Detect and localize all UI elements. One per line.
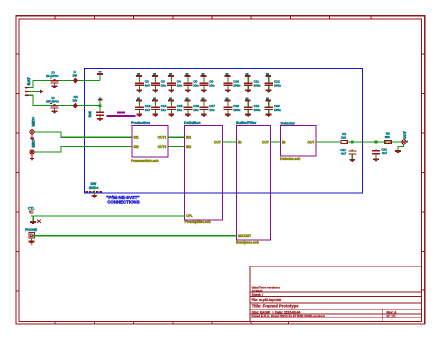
- frame tick right 4: [421, 172, 425, 173]
- svg-text:BPU/PIC: BPU/PIC: [46, 100, 59, 104]
- frame tick bottom 6: [251, 321, 252, 325]
- svg-text:IN2: IN2: [134, 145, 139, 149]
- title block rev divider: [382, 309, 384, 321]
- wire Definition OUT to Buffer IN: [223, 142, 237, 143]
- wire Buffer OUT to Detector IN: [271, 142, 281, 143]
- teal mark right of J7: [407, 140, 409, 142]
- frame tick left 5: [16, 212, 20, 213]
- dashes under GND label: [86, 191, 88, 192]
- frame tick right 5: [421, 212, 425, 213]
- frame tick right 1: [421, 54, 425, 55]
- analog section note rectangle: [85, 68, 363, 193]
- frame tick top 6: [251, 16, 252, 20]
- svg-text:10n: 10n: [161, 83, 166, 87]
- svg-text:OUT1: OUT1: [158, 136, 167, 140]
- frame tick top 7: [290, 16, 291, 20]
- connector J1 pin 2: [25, 91, 29, 92]
- svg-text:BAT: BAT: [26, 77, 31, 85]
- svg-text:2u2: 2u2: [88, 111, 92, 117]
- frame tick left 3: [16, 133, 20, 134]
- svg-text:10n: 10n: [209, 83, 214, 87]
- svg-text:IN1: IN1: [134, 136, 139, 140]
- frame tick left 2: [16, 93, 20, 94]
- ferrite bead FB1: [106, 115, 135, 117]
- svg-text:10n: 10n: [177, 108, 182, 112]
- ground mark below J4: [30, 154, 34, 160]
- title block line 5: [250, 313, 422, 315]
- svg-text:CONNECTIONS: CONNECTIONS: [107, 199, 140, 204]
- frame tick right 7: [421, 290, 425, 291]
- frame tick bottom 3: [133, 321, 134, 325]
- svg-text:Buffer/Filter: Buffer/Filter: [236, 121, 257, 125]
- svg-text:IN: IN: [238, 140, 242, 144]
- frame tick right 2: [421, 93, 425, 94]
- wire R1 to output: [347, 142, 403, 143]
- svg-text:Detector: Detector: [281, 121, 296, 125]
- svg-text:4u7: 4u7: [145, 108, 151, 112]
- title block line 6: [250, 316, 422, 318]
- capacitor C17: [200, 98, 209, 118]
- resistor R1: [341, 140, 347, 143]
- svg-text:100n: 100n: [274, 108, 281, 112]
- svg-text:MIC-: MIC-: [30, 138, 35, 147]
- power bar above C1: [98, 99, 102, 101]
- frame tick left 6: [16, 251, 20, 252]
- svg-text:68k: 68k: [385, 135, 390, 139]
- svg-text:Title: Framed Prototype: Title: Framed Prototype: [252, 303, 300, 308]
- resistor R2: [385, 141, 392, 144]
- frame tick left 1: [16, 54, 20, 55]
- svg-text:Preamplifier.sch: Preamplifier.sch: [185, 220, 211, 224]
- capacitor C21: [348, 150, 356, 163]
- ground below CPL wire: [30, 221, 36, 224]
- svg-text:IN2: IN2: [186, 145, 191, 149]
- frame tick top 9: [370, 16, 371, 20]
- stub to ground from jack: [31, 238, 32, 241]
- svg-text:PHONE: PHONE: [25, 228, 38, 232]
- capacitor C15: [167, 98, 176, 118]
- junction at C21: [351, 141, 354, 144]
- ground below J7: [395, 150, 401, 153]
- capacitor C19: [244, 98, 253, 118]
- capacitor C3: [151, 73, 160, 92]
- junction at C22: [375, 141, 378, 144]
- svg-text:Definition: Definition: [184, 121, 201, 125]
- ground below note box: [94, 191, 95, 195]
- capacitor C10: [224, 73, 233, 92]
- capacitor C14: [151, 98, 160, 118]
- frame tick top 3: [133, 16, 134, 20]
- frame tick bottom 2: [94, 321, 95, 325]
- svg-text:1k0: 1k0: [341, 135, 346, 139]
- svg-text:4u7: 4u7: [145, 83, 151, 87]
- connector J6 jack symbol: [29, 233, 34, 238]
- frame tick bottom 1: [55, 321, 56, 325]
- frame tick top 4: [172, 16, 173, 20]
- frame tick right 6: [421, 251, 425, 252]
- frame tick left 4: [16, 172, 20, 173]
- sheet Detector box: [281, 126, 317, 157]
- ground below jack: [29, 241, 35, 244]
- wire Detector OUT to R1: [316, 142, 341, 143]
- svg-text:100n: 100n: [254, 83, 261, 87]
- wire bottom rail: [33, 105, 101, 106]
- capacitor C5: [184, 73, 193, 92]
- capacitor C13: [135, 98, 144, 118]
- svg-text:10n: 10n: [177, 83, 182, 87]
- power diamond PWR1: [73, 78, 78, 84]
- wire PHONE long: [32, 235, 237, 236]
- power bar top left inside box: [97, 71, 103, 75]
- capacitor C22: [372, 149, 380, 162]
- svg-text:IN: IN: [282, 140, 286, 144]
- svg-text:BLE/PIC: BLE/PIC: [46, 74, 59, 78]
- svg-text:Detector.sch: Detector.sch: [280, 157, 300, 161]
- svg-text:4n7: 4n7: [341, 152, 347, 156]
- svg-text:10n: 10n: [193, 83, 198, 87]
- svg-text:100n: 100n: [254, 108, 261, 112]
- svg-text:GND■: GND■: [89, 186, 99, 190]
- capacitor C2: [135, 73, 144, 92]
- capacitor C12: [264, 73, 273, 92]
- wire CPL long: [31, 215, 185, 216]
- svg-text:BB: BB: [73, 99, 78, 103]
- sheet Buffer/Filter box: [237, 126, 271, 240]
- capacitor C7 on top rail: [50, 78, 59, 89]
- svg-text:OUT2: OUT2: [158, 145, 167, 149]
- sheet Production box: [132, 126, 168, 157]
- svg-text:Bandpass.sch: Bandpass.sch: [236, 240, 259, 244]
- wire J7 to ground: [403, 144, 404, 147]
- svg-text:10n: 10n: [209, 108, 214, 112]
- wire J4 to sheet: [34, 152, 62, 153]
- svg-text:Powerswitch.sch: Powerswitch.sch: [131, 159, 159, 163]
- svg-text:Production: Production: [131, 121, 150, 125]
- title block line 1: [250, 291, 422, 293]
- svg-text:OUT: OUT: [262, 140, 269, 144]
- title block outline: [250, 266, 422, 321]
- wire J3 to sheet: [34, 131, 62, 132]
- connector J3 pin: [30, 130, 34, 134]
- svg-text:BB: BB: [73, 74, 78, 78]
- wire OUT2 to IN2: [168, 146, 185, 147]
- svg-text:CTL: CTL: [28, 207, 35, 211]
- capacitor C1: [96, 107, 104, 121]
- svg-text:10n: 10n: [193, 108, 198, 112]
- frame tick left 7: [16, 291, 20, 292]
- svg-text:OUT: OUT: [214, 140, 221, 144]
- svg-text:IN1: IN1: [186, 136, 191, 140]
- svg-text:OUT: OUT: [307, 140, 314, 144]
- connector J1 pin 3: [25, 95, 29, 96]
- frame tick bottom 7: [288, 321, 289, 325]
- frame tick top 1: [55, 16, 56, 20]
- output connector J7 pin: [402, 140, 406, 144]
- no connect arrow: [40, 89, 43, 93]
- svg-text:MIC+: MIC+: [30, 116, 35, 126]
- connector J1 pin 1: [25, 87, 29, 88]
- svg-text:OUT: OUT: [403, 131, 407, 140]
- svg-text:File: m-pID-lapr.lmk: File: m-pID-lapr.lmk: [252, 298, 282, 302]
- wire top rail: [33, 80, 101, 81]
- connector J4 pin: [30, 150, 34, 154]
- capacitor C18: [224, 98, 233, 118]
- svg-text:CPL: CPL: [186, 214, 193, 218]
- sheet Definition box: [185, 126, 223, 220]
- svg-text:MAX267: MAX267: [238, 234, 251, 238]
- svg-text:100n: 100n: [274, 83, 281, 87]
- frame tick top 8: [329, 16, 330, 20]
- svg-text:Kicad E.D.A. kicad (2014-11-0: Kicad E.D.A. kicad (2014-11-07 BZR 5240)…: [252, 314, 325, 318]
- svg-text:100n: 100n: [233, 108, 240, 112]
- capacitor C8 on bottom rail: [50, 103, 59, 114]
- connector J5 pin: [29, 211, 33, 212]
- wire OUT1 to IN1: [168, 137, 185, 138]
- svg-text:4n7: 4n7: [382, 151, 388, 155]
- capacitor C4: [167, 73, 176, 92]
- ground mark below J3: [30, 134, 34, 140]
- wire pin3 down: [29, 95, 33, 96]
- capacitor C20: [264, 98, 273, 118]
- title block line 2: [250, 296, 422, 298]
- svg-text:ACPER: ACPER: [252, 289, 264, 293]
- frame tick top 2: [94, 16, 95, 20]
- frame tick bottom 4: [172, 321, 173, 325]
- capacitor C16: [184, 98, 193, 118]
- stub to ground from CPL wire: [33, 215, 34, 221]
- svg-text:Sheet: /: Sheet: /: [252, 293, 264, 297]
- title block line 4: [250, 308, 422, 310]
- wire to C1 junction: [99, 105, 102, 108]
- capacitor C6: [200, 73, 209, 92]
- svg-text:100n: 100n: [233, 83, 240, 87]
- svg-text:Id: 1/1: Id: 1/1: [387, 314, 396, 318]
- frame tick bottom 5: [212, 321, 213, 325]
- svg-text:10n: 10n: [161, 108, 166, 112]
- capacitor C11: [244, 73, 253, 92]
- power diamond PWR2: [73, 103, 78, 109]
- no connect X: [37, 220, 41, 223]
- wire pin1 up: [33, 80, 34, 88]
- frame tick right 3: [421, 133, 425, 134]
- title block line 3: [250, 302, 422, 304]
- frame tick top 5: [212, 16, 213, 20]
- wire pin2 stub: [29, 91, 40, 92]
